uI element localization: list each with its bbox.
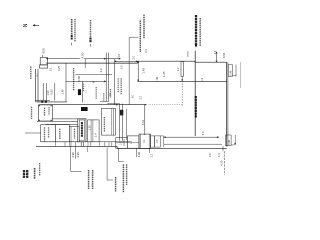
svg-text:1.4: 1.4	[95, 133, 98, 137]
svg-text:0.46: 0.46	[228, 139, 231, 144]
svg-text:4.95: 4.95	[71, 152, 75, 158]
svg-text:4.50: 4.50	[41, 48, 45, 54]
svg-text:1.2: 1.2	[140, 96, 143, 100]
svg-text:1.0: 1.0	[109, 92, 112, 96]
svg-text:0.9: 0.9	[208, 153, 212, 157]
svg-text:1.45: 1.45	[61, 89, 65, 95]
svg-text:0.1: 0.1	[50, 67, 53, 71]
svg-text:1.45: 1.45	[142, 68, 146, 74]
svg-text:1.45: 1.45	[162, 71, 166, 77]
svg-text:4.30: 4.30	[220, 160, 224, 166]
svg-text:4.50: 4.50	[81, 52, 85, 58]
svg-text:N: N	[23, 23, 29, 27]
svg-text:5.00: 5.00	[77, 76, 81, 82]
svg-text:1.9: 1.9	[217, 153, 221, 157]
svg-text:G.L: G.L	[36, 72, 39, 77]
svg-text:2.4: 2.4	[213, 50, 217, 54]
svg-text:1.30: 1.30	[46, 90, 50, 96]
svg-text:2.4: 2.4	[145, 49, 148, 53]
svg-text:1.0: 1.0	[131, 94, 134, 98]
svg-text:1.05: 1.05	[88, 125, 91, 130]
svg-text:4.95: 4.95	[137, 151, 141, 157]
svg-text:0.95: 0.95	[50, 89, 54, 95]
svg-text:5.9: 5.9	[201, 131, 205, 135]
svg-text:0.2: 0.2	[99, 68, 103, 72]
svg-text:4.95: 4.95	[76, 152, 80, 158]
svg-text:1.49: 1.49	[155, 76, 159, 82]
svg-text:0.50: 0.50	[222, 52, 226, 58]
svg-text:1.2: 1.2	[177, 67, 180, 71]
svg-text:0.9: 0.9	[121, 65, 124, 69]
svg-text:0.46: 0.46	[230, 70, 233, 75]
svg-text:1.4: 1.4	[200, 78, 204, 82]
svg-text:0.25: 0.25	[57, 65, 61, 71]
svg-text:5.01: 5.01	[141, 119, 145, 125]
svg-text:1.2: 1.2	[151, 153, 154, 157]
svg-text:2.0: 2.0	[132, 55, 135, 59]
